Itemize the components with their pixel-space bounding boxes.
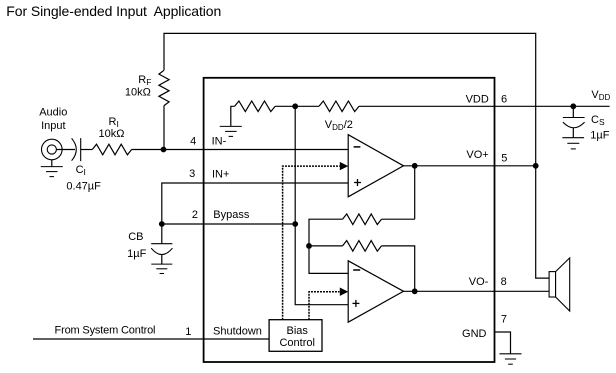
wire: U2 output to VO- pin 8 and speaker	[404, 290, 550, 292]
feedback resistor row 1	[343, 214, 382, 225]
wire: feedback node to U2 inverting input	[309, 246, 348, 274]
wire: IN+ pin 3 line to op-amp U1 + input	[162, 183, 348, 224]
wire: row 1 right lead	[382, 218, 415, 220]
resistor RF	[159, 70, 169, 105]
op-amp U1 minus sign	[354, 146, 361, 148]
ground: GND pin	[500, 353, 522, 355]
capacitor CB flat plate	[151, 243, 172, 245]
op-amp U1	[348, 135, 403, 197]
internal resistor VDD/2 divider right	[319, 101, 359, 112]
svg-text:5: 5	[501, 153, 507, 165]
capacitor CB curved plate	[151, 248, 172, 254]
wire: divider left resistor to VDD/2 node	[275, 105, 295, 107]
wire: CI to RI	[81, 149, 93, 151]
wire: shutdown pin 1 from system control	[33, 338, 269, 340]
dotted control line to U1 + input	[283, 166, 340, 320]
svg-text:10kΩ: 10kΩ	[99, 128, 125, 140]
svg-text:GND: GND	[462, 328, 487, 340]
svg-text:VO-: VO-	[469, 276, 489, 288]
svg-text:1µF: 1µF	[127, 248, 146, 260]
speaker LS1 driver	[549, 272, 556, 297]
svg-text:1: 1	[185, 326, 191, 338]
wire: U1 output down to feedback resistor row 1	[414, 166, 416, 219]
node: U2 output	[412, 288, 418, 294]
svg-text:Bypass: Bypass	[213, 209, 250, 221]
speaker LS1 horn	[556, 258, 570, 311]
svg-text:3: 3	[189, 168, 195, 180]
feedback resistor row 2	[343, 241, 382, 252]
svg-text:IN+: IN+	[212, 168, 229, 180]
node: VDD/2 junction	[292, 103, 298, 109]
wire: VO+ node down to speaker	[536, 166, 549, 278]
resistor RI	[92, 144, 131, 155]
arrowhead into U2	[340, 288, 348, 296]
svg-text:4: 4	[190, 136, 196, 148]
svg-text:CB: CB	[128, 231, 143, 243]
svg-text:IN-: IN-	[212, 136, 227, 148]
wire: VDD/2 node down to bypass and op-amp U2 + input	[295, 106, 348, 304]
svg-text:From System Control: From System Control	[55, 324, 156, 336]
ground: internal divider	[220, 125, 242, 127]
svg-text:6: 6	[501, 94, 507, 106]
wire: row 2 left lead	[309, 245, 343, 247]
arrowhead into U1	[340, 162, 348, 170]
svg-text:7: 7	[501, 313, 507, 325]
wire: GND pin 7 stub	[495, 332, 511, 354]
bias control block	[269, 320, 322, 352]
wire: row 1 left lead down to feedback node	[309, 219, 343, 246]
wire: Bypass pin 2 line	[162, 223, 295, 225]
wire: bypass node down to CB	[161, 224, 163, 244]
wire: RI to IN- pin 4 and op-amp U1 inverting input	[132, 149, 349, 151]
node: VO+ / speaker junction	[533, 163, 539, 169]
wire: feedback top from RF to VO+ node	[164, 33, 536, 165]
svg-text:0.47µF: 0.47µF	[66, 180, 101, 192]
svg-text:Shutdown: Shutdown	[213, 326, 262, 338]
node: bypass internal junction	[292, 221, 298, 227]
ground: audio input connector	[51, 160, 53, 167]
node: feedback junction	[306, 243, 312, 249]
op-amp U2 minus sign	[353, 269, 360, 271]
svg-text:1µF: 1µF	[590, 130, 609, 142]
svg-text:Input: Input	[41, 120, 65, 132]
svg-text:VO+: VO+	[466, 149, 488, 161]
svg-text:For Single-ended Input Applic: For Single-ended Input Application	[6, 3, 221, 19]
svg-text:10kΩ: 10kΩ	[125, 87, 151, 99]
node: bypass/CB junction	[159, 221, 165, 227]
wire: U1 output to VO+ pin 5	[404, 165, 536, 167]
capacitor CI curved plate	[72, 138, 77, 160]
capacitor CS	[572, 106, 574, 117]
svg-text:2: 2	[192, 209, 198, 221]
node: RF/RI junction	[161, 147, 167, 153]
svg-text:Audio: Audio	[39, 107, 67, 119]
wire: row 2 right lead down to U2 output	[382, 246, 415, 291]
node: U1 output	[412, 163, 418, 169]
svg-text:Control: Control	[279, 337, 314, 349]
wire: VDD rail to pin 6 and external VDD	[359, 105, 610, 107]
ground: CB	[151, 263, 172, 265]
op-amp U2 plus sign	[353, 302, 360, 304]
wire: CB to ground	[161, 255, 163, 265]
dotted control line to U2 + input	[309, 292, 340, 320]
svg-text:VDD: VDD	[466, 94, 489, 106]
op-amp U2	[348, 261, 403, 322]
wire: RF bottom lead to IN- node	[163, 106, 165, 150]
IC box U1 outline	[204, 78, 495, 362]
svg-text:8: 8	[501, 276, 507, 288]
capacitor CI flat plate	[80, 138, 82, 161]
internal resistor to ground (VDD/2 divider left)	[231, 106, 235, 126]
wire: jack to CI	[56, 149, 75, 151]
audio input connector jack	[42, 139, 63, 160]
node: CS junction on VDD line	[570, 103, 576, 109]
svg-text:Bias: Bias	[286, 325, 308, 337]
ground: CS	[562, 137, 584, 139]
wire: VDD/2 node to divider right resistor	[295, 105, 319, 107]
op-amp U1 plus sign	[354, 182, 361, 184]
